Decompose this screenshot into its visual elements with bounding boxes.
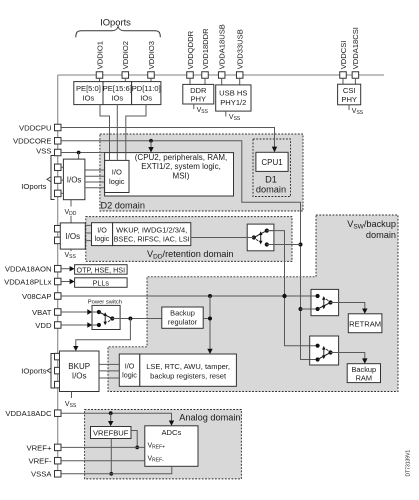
svg-text:IOs: IOs [111,94,123,103]
svg-text:MSI): MSI) [173,172,190,181]
wire retention switch out bottom [267,244,301,246]
wire VDDCSI to CSI PHY [342,78,344,84]
pin IOports1 [55,164,62,171]
wire power switch output [73,317,162,352]
pin VDDIO2 [121,41,130,78]
pin VDD33USB [236,29,245,78]
svg-text:D1: D1 [265,175,277,185]
pin VDDIO3 [147,41,156,78]
svg-text:I/O: I/O [125,362,135,371]
Vdd tap between I/Os boxes [65,200,77,223]
svg-text:VSS: VSS [65,252,77,260]
wire pins to I/Os box1 [61,167,63,193]
block I/Os 2 [60,223,85,249]
svg-text:Analog domain: Analog domain [179,413,240,423]
svg-text:VREF+: VREF+ [27,443,53,452]
pin VDDA18PLLx [4,277,75,286]
wires BKUP I/Os to I/O logic3 [99,364,119,378]
svg-text:Power switch: Power switch [88,300,122,306]
wire PE3 to IO logic [126,105,146,161]
svg-text:VSS: VSS [36,146,51,155]
pin VDDCPU [19,123,61,132]
pin IOs2b [55,237,62,244]
svg-text:VDDA18CSI: VDDA18CSI [351,27,360,69]
power switch [88,300,122,330]
pin VDDA18ADC [5,409,61,418]
svg-text:domain: domain [366,230,396,240]
pin IOports2 [55,177,62,184]
Analog domain box [85,410,242,479]
wire backup regulator to LSE [203,296,213,354]
pin VDDA18CSI [351,27,360,78]
block PLLs [75,278,128,288]
block PE[5:0] IOs [74,82,103,105]
Vss tap DDR PHY [194,104,209,115]
block I/O logic 3 [119,354,140,386]
svg-text:VDDA18AON: VDDA18AON [5,265,52,274]
svg-text:VSSA: VSSA [31,470,52,479]
pin BKUP3 [55,381,62,388]
block CPU1 [256,152,288,171]
svg-text:PHY1/2: PHY1/2 [220,98,246,107]
svg-text:IOs: IOs [82,94,94,103]
svg-text:VREFBUF: VREFBUF [93,429,129,438]
Vss tap CSI PHY [349,105,364,116]
svg-text:PE[5:0]: PE[5:0] [76,84,101,93]
wire PE2 to IO logic [116,105,118,161]
block PD[11:0] IOs [132,82,161,105]
block RETRAM [348,314,382,333]
svg-text:VDDA18USB: VDDA18USB [218,24,227,69]
pin IOs2a [55,225,62,232]
wire retention switch out top [267,231,318,346]
svg-text:PD[11:0]: PD[11:0] [132,84,161,93]
pin VSSA [31,466,172,478]
svg-text:PHY: PHY [190,95,206,104]
block I/Os 1 [63,159,85,200]
pin VSS [36,146,61,155]
big white box CPU2 peripherals [105,153,234,196]
svg-text:IOs: IOs [140,94,152,103]
pin VDDIO1 [95,41,104,78]
pin VREF+ [27,443,145,452]
wire WKUP to retention switch [191,237,254,239]
D1 domain box [253,139,291,197]
svg-text:(CPU2, peripherals, RAM,: (CPU2, peripherals, RAM, [135,153,227,162]
svg-text:IOports: IOports [100,17,131,28]
Vss tap below BKUP I/Os [65,392,77,410]
block BKUP I/Os [60,351,100,392]
wire VDDA18ADC to VREFBUF and ADCs [61,411,174,426]
pin VDDA18AON [5,265,75,274]
block OTP HSE HSI [75,265,128,275]
svg-text:CSI: CSI [343,86,356,95]
svg-text:VDDQDDR: VDDQDDR [186,30,195,69]
wire VREFBUF ground to VSSA net [109,439,113,476]
svg-text:VDDCPU: VDDCPU [19,123,51,132]
block USB HS PHY1/2 [216,85,251,111]
svg-text:VDDA18PLLx: VDDA18PLLx [4,277,52,286]
pin VDDCSI [339,41,348,79]
svg-text:VDDA18ADC: VDDA18ADC [5,409,52,418]
wires I/Os2 to I/O logic2 [85,225,91,240]
IOports bracket upper [21,155,54,200]
svg-text:RETRAM: RETRAM [349,319,381,328]
svg-text:VDD: VDD [35,321,52,330]
wire VDD33USB to USB PHY [239,78,241,85]
block WKUP IWDG [113,223,191,246]
wire VDD18DDR to DDR PHY [204,78,206,84]
svg-text:Backup: Backup [351,365,376,374]
block PE[15:6] IOs [103,82,132,105]
wire VDDA18USB to USB PHY [221,78,223,85]
backup switch 2 [310,336,339,365]
pin VDD [35,321,99,330]
block backup regulator [162,307,203,328]
svg-text:D2 domain: D2 domain [101,201,145,211]
wire VDDQDDR to DDR PHY [189,78,191,84]
svg-text:VDD18DDR: VDD18DDR [201,28,210,69]
svg-text:VDDCSI: VDDCSI [339,41,348,70]
block ADCs [145,426,198,467]
wire V08CAP to backup switch1 [61,294,318,298]
svg-text:VDDIO1: VDDIO1 [95,41,104,69]
svg-text:OTP, HSE, HSI: OTP, HSE, HSI [76,265,125,274]
svg-text:PHY: PHY [341,95,357,104]
Vss tap USB PHY [226,111,241,122]
svg-text:logic: logic [95,234,110,243]
svg-text:backup registers, reset: backup registers, reset [150,371,227,380]
svg-text:BKUP: BKUP [68,362,90,371]
svg-text:USB HS: USB HS [219,89,247,98]
IOports brace top [76,27,161,38]
pin BKUP1 [55,353,62,360]
svg-text:DT73139V1: DT73139V1 [406,450,412,477]
wire VDDIO1 to PE[5:0] [99,78,101,81]
svg-text:V08CAP: V08CAP [22,292,52,301]
pin VREF- [28,457,144,466]
Vdd/retention domain box [86,217,292,262]
wire switch2 to backup RAM [331,353,368,364]
pin VDDA18USB [218,24,227,78]
svg-text:I/O: I/O [112,168,122,177]
svg-text:VDDCORE: VDDCORE [13,137,51,146]
Vsw/backup domain region [108,215,398,392]
wire PE1 to IO logic [100,105,110,161]
retention switch [247,224,274,251]
svg-text:LSE, RTC, AWU, tamper,: LSE, RTC, AWU, tamper, [146,362,230,371]
svg-text:CPU1: CPU1 [261,158,283,167]
svg-text:I/Os: I/Os [67,175,82,184]
svg-text:VDDIO2: VDDIO2 [121,41,130,69]
pin VDDCORE [13,137,61,146]
wire VDDIO3 to PD[11:0] [150,78,152,81]
svg-text:regulator: regulator [168,317,198,326]
svg-text:ADCs: ADCs [161,428,181,437]
wire switch1 to RETRAM [331,303,368,314]
svg-text:WKUP, IWDG1/2/3/4,: WKUP, IWDG1/2/3/4, [116,225,187,234]
svg-text:logic: logic [109,177,125,186]
IOports bracket lower [21,353,54,389]
pin VBAT [32,308,99,317]
svg-text:VDDIO3: VDDIO3 [147,41,156,69]
svg-text:I/Os: I/Os [72,371,87,380]
D2 domain box [100,134,303,211]
svg-text:VREF-: VREF- [28,457,52,466]
block I/O logic 1 [105,160,129,192]
svg-text:VSS: VSS [229,114,241,122]
wire VDDCORE to retention switches [61,139,318,360]
wire VSS to D2 [61,151,105,160]
svg-text:PE[15:6]: PE[15:6] [103,84,132,93]
block I/O logic 2 [92,223,113,246]
pin IOports3 [55,190,62,197]
svg-text:domain: domain [256,185,286,195]
wire VDDA18CSI to CSI PHY [354,78,356,84]
svg-text:Backup: Backup [170,309,195,318]
svg-text:RAM: RAM [356,374,372,383]
wire VDDCPU to CPU1 [61,128,277,153]
svg-text:VDD33USB: VDD33USB [236,29,245,69]
block VREFBUF [91,427,132,439]
svg-text:VREF-: VREF- [148,455,165,463]
block Backup RAM [347,364,380,383]
svg-text:EXTI1/2, system logic,: EXTI1/2, system logic, [141,162,221,171]
svg-text:VBAT: VBAT [32,308,52,317]
wire PE segments into I/O logic1 [110,153,126,161]
block LSE RTC AWU [140,354,237,386]
svg-text:VSS: VSS [197,107,209,115]
svg-text:VREF+: VREF+ [148,443,166,451]
svg-text:VDD: VDD [65,209,77,217]
Vss tap below I/Os2 [65,249,77,260]
svg-text:IOports: IOports [21,182,46,191]
svg-text:I/O: I/O [97,225,107,234]
wires I/Os1 to I/O logic1 [85,170,105,188]
svg-text:logic: logic [122,370,137,379]
left rail [57,75,59,477]
pin VDDQDDR [186,30,195,78]
svg-text:VSS: VSS [352,108,364,116]
svg-text:I/Os: I/Os [65,232,80,241]
wire VREFBUF output to VREF+ net [131,431,139,450]
block DDR PHY [183,84,214,104]
svg-text:PLLs: PLLs [93,278,110,287]
pin V08CAP [22,292,61,301]
backup switch 1 [311,289,339,315]
pin BKUP2 [55,367,62,374]
block CSI PHY [338,84,361,105]
top rail [58,74,384,76]
wire VDDIO2 to PE[15:6] [124,78,126,81]
svg-text:BSEC, RIFSC, IAC, LSI: BSEC, RIFSC, IAC, LSI [114,235,190,244]
pin VDD18DDR [201,28,210,78]
svg-text:VSS: VSS [65,401,77,409]
svg-text:IOports: IOports [21,366,46,375]
